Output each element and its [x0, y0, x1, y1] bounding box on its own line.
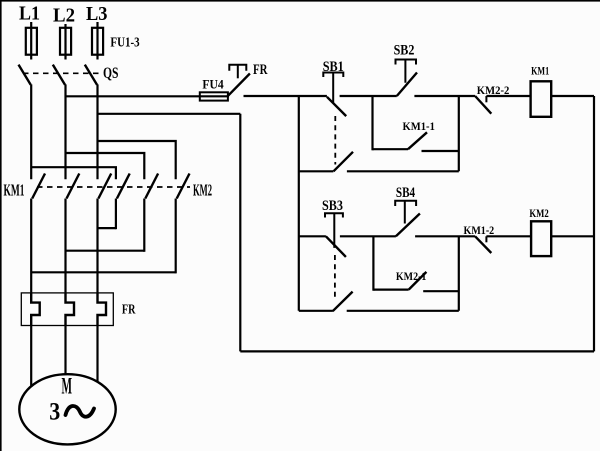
svg-text:L1: L1	[19, 2, 40, 24]
button SB1 NC blade	[327, 97, 346, 116]
wire crossover L2 to KM2 c5 top	[66, 153, 145, 179]
contact KM2 c5 blade	[145, 174, 158, 199]
contact KM2-1 NO	[373, 290, 458, 292]
wire c2 bottom drop	[64, 199, 66, 293]
wire crossover c1 to c6 bottom	[31, 271, 176, 273]
wire L2 drop to fuse	[64, 24, 66, 60]
svg-text:L2: L2	[53, 4, 75, 26]
wire crossover c2 to c5 bottom	[66, 250, 145, 252]
contact KM2 c6 blade	[177, 174, 190, 199]
svg-text:QS: QS	[103, 65, 119, 82]
symbol AC sine	[66, 406, 95, 417]
wire top rail segment FR to SB1	[244, 95, 595, 97]
wire SB1 NO row	[299, 170, 459, 172]
relay FR heater element 1	[31, 293, 40, 326]
wire control bottom rail	[240, 350, 594, 352]
svg-text:KM2: KM2	[193, 180, 212, 199]
contact KM1-1 NO	[373, 149, 459, 151]
motor M	[19, 374, 115, 444]
contact KM2-1 branch vertical	[372, 236, 374, 290]
fuse FU2	[60, 28, 71, 55]
relay FR NC contact stem	[237, 65, 239, 79]
relay FR heater element 3	[98, 293, 107, 326]
wire branch left vertical	[298, 96, 300, 311]
svg-text:KM2-2: KM2-2	[477, 85, 510, 97]
wire c4 bottom drop	[115, 199, 117, 230]
coil KM1	[531, 81, 552, 117]
contact KM1-1 blade	[408, 132, 427, 149]
contact KM1 c1 blade	[32, 174, 45, 199]
button SB2 NO blade	[397, 73, 417, 97]
relay FR NC contact actuator bar	[229, 65, 246, 71]
button SB3 NO blade	[333, 292, 353, 312]
svg-text:FR: FR	[122, 303, 136, 318]
relay FR heater box	[21, 293, 113, 326]
contact KM1-2 NC blade	[475, 236, 491, 253]
wire c5 bottom drop	[143, 199, 145, 252]
wire U to motor	[30, 326, 32, 388]
wire L3 drop to fuse	[96, 22, 98, 60]
wire rail2 segments	[299, 235, 594, 237]
svg-text:KM2: KM2	[529, 208, 549, 220]
wire V to motor	[64, 326, 66, 376]
wire crossover L1 to KM2 c4 top	[31, 167, 116, 179]
button SB1 linkage dashed	[334, 116, 336, 165]
contact KM2-2 NC blade	[475, 96, 491, 114]
switch QS blade 1	[19, 65, 31, 85]
svg-text:L3: L3	[86, 3, 108, 25]
contact KM1 c3 blade	[98, 174, 111, 199]
fuse FU1	[26, 28, 37, 55]
switch QS blade 3	[85, 65, 97, 85]
switch QS linkage dashed	[23, 72, 100, 74]
svg-text:KM1-2: KM1-2	[464, 225, 495, 237]
switch QS blade 2	[53, 65, 65, 85]
contact KM1-1 branch vertical	[371, 96, 373, 150]
button SB2 actuator	[396, 60, 417, 83]
svg-text:SB2: SB2	[394, 43, 415, 59]
svg-text:3: 3	[49, 396, 60, 425]
svg-text:SB4: SB4	[396, 185, 415, 201]
button SB1 NO blade	[334, 152, 354, 172]
wire parallel join vertical 2	[458, 236, 460, 310]
wire W to motor	[96, 326, 98, 383]
contact KM2-2 seat tick	[485, 96, 487, 102]
button SB4 NO blade	[396, 214, 420, 237]
fuse FU4	[200, 92, 228, 100]
wire L2 tap to FU4	[66, 95, 230, 97]
wire L3 QS to KM contact	[96, 84, 98, 179]
svg-text:FR: FR	[253, 62, 268, 78]
wire L2 QS to KM contact	[64, 84, 66, 179]
button SB1 actuator	[323, 73, 343, 104]
relay FR heater element 2	[66, 293, 75, 326]
wire parallel join vertical	[458, 96, 460, 171]
wire crossover c3 to c4 bottom	[98, 227, 116, 229]
contact KM1-2 seat tick	[485, 236, 487, 242]
border left	[0, 0, 2, 451]
button SB4 actuator	[395, 201, 416, 224]
wire L1 QS to KM contact	[30, 84, 32, 179]
button SB3 actuator	[325, 213, 343, 248]
wire SB3 NO row	[299, 310, 459, 312]
svg-text:M: M	[62, 374, 73, 399]
coil KM2	[531, 221, 551, 256]
contact KM1 c2 blade	[67, 174, 80, 199]
contact KM2-1 blade	[409, 272, 427, 290]
button SB3 linkage dashed	[334, 255, 336, 298]
wire right side vertical	[593, 96, 595, 351]
svg-text:KM1: KM1	[4, 180, 25, 199]
svg-text:FU1-3: FU1-3	[110, 35, 139, 50]
wire c6 bottom drop	[175, 199, 177, 274]
wire L1 drop to fuse	[30, 22, 32, 60]
wire L3 tap horizontal	[98, 113, 241, 115]
svg-text:FU4: FU4	[202, 76, 224, 91]
wire control left drop	[239, 114, 241, 352]
svg-text:SB3: SB3	[322, 198, 343, 214]
relay FR NC contact blade	[228, 74, 250, 97]
wire c3 bottom drop	[96, 199, 98, 293]
svg-text:KM1: KM1	[531, 66, 549, 78]
contact KM2 c4 blade	[117, 174, 130, 199]
border top	[0, 0, 600, 2]
wire c1 bottom drop	[30, 199, 32, 293]
button SB3 NC blade	[326, 236, 346, 257]
fuse FU3	[92, 28, 103, 55]
svg-text:KM1-1: KM1-1	[403, 121, 436, 133]
linkage dashed KM main contacts	[37, 186, 190, 188]
wire crossover L3 to KM2 c6 top	[98, 141, 176, 179]
